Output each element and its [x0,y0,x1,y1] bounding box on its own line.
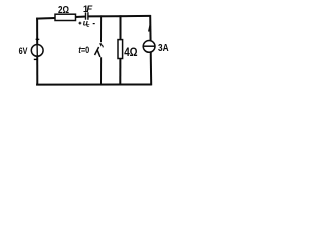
svg-text:2Ω: 2Ω [58,5,69,16]
svg-text:6V: 6V [19,46,28,57]
label minus of uc [93,23,95,25]
current source bar [143,45,155,47]
switch arrow tail arc [101,45,103,48]
wire 4ohm branch upper [120,15,122,40]
wire top right segment [88,15,151,18]
wire switch branch upper [100,15,102,42]
capacitor C1 1F [86,12,88,20]
svg-text:F: F [86,4,92,15]
wire left branch [36,18,38,86]
switch blade second stroke [97,50,100,57]
wire 4ohm branch lower [119,58,121,84]
switch arrow head [99,43,102,47]
wire top left segment [36,17,85,19]
current source I1 3A [143,41,155,53]
svg-text:t=0: t=0 [78,45,89,55]
label plus of source [36,37,40,41]
switch blade line [95,47,99,55]
svg-text:3A: 3A [158,43,169,54]
voltage source axis line [36,45,38,57]
wire switch branch lower [100,57,102,84]
resistor R1 2ohm [55,14,76,20]
svg-text:c: c [87,23,90,29]
wire bottom [36,84,152,86]
current direction arrow on right branch [148,25,151,32]
wire right branch [150,15,151,85]
resistor R2 4ohm [118,40,123,59]
voltage source U1 6V [31,45,43,57]
svg-text:4Ω: 4Ω [124,45,138,59]
label minus of source [34,58,37,60]
label plus of uc [79,22,82,25]
switch S1 closing at t=0 [95,43,104,57]
